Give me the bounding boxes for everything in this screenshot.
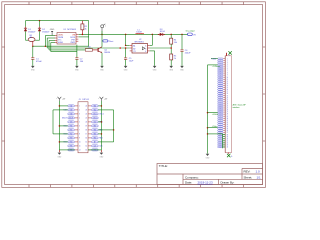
net flags J1 right	[92, 105, 99, 152]
svg-text:11: 11	[79, 146, 81, 148]
resistor R3	[85, 47, 92, 52]
svg-text:1.0: 1.0	[256, 170, 261, 174]
net flag DC+output	[186, 30, 197, 37]
node junction left rail top	[59, 105, 61, 107]
wire U2 vertical feed	[125, 34, 127, 45]
svg-text:20: 20	[86, 122, 88, 124]
node junction U2 feed	[125, 34, 127, 36]
pins J1 right	[88, 106, 91, 150]
svg-text:1: 1	[229, 55, 230, 57]
svg-text:GND: GND	[219, 128, 221, 130]
node junction P1 rail b	[207, 127, 209, 129]
pin numbers P1	[225, 56, 228, 153]
svg-text:1k: 1k	[85, 28, 87, 30]
svg-text:MCLR: MCLR	[69, 118, 73, 120]
svg-text:RB0: RB0	[70, 126, 73, 128]
svg-text:GND: GND	[219, 122, 221, 124]
node junction H4/V45	[45, 45, 47, 47]
wire F1 to node	[32, 42, 34, 47]
svg-text:GND: GND	[219, 68, 221, 70]
svg-text:RB5: RB5	[94, 134, 97, 136]
svg-text:GND: GND	[219, 134, 221, 136]
wire right rail J1	[100, 101, 102, 152]
label ATX text	[233, 103, 247, 108]
title block texts	[159, 164, 261, 184]
ground under Q1	[100, 66, 105, 72]
node junction H2 drop	[152, 34, 154, 36]
svg-text:NCP3063: NCP3063	[67, 29, 77, 31]
node junction left rail low	[59, 141, 61, 143]
node junction vcc flag	[101, 34, 103, 36]
wire U2 pin5 to R4 node	[150, 47, 171, 49]
ground under R5	[169, 66, 174, 72]
svg-text:5: 5	[145, 48, 146, 50]
wire J1 outer left rail	[53, 110, 68, 134]
inductor L1	[136, 29, 144, 34]
wire to U1 pin2 loop	[47, 38, 130, 48]
op-amp U2	[132, 39, 148, 53]
svg-text:14: 14	[86, 146, 88, 148]
wire P1 row4	[208, 65, 221, 68]
svg-text:interface: interface	[233, 106, 240, 109]
ground under C2	[75, 66, 80, 72]
wire J1 outer right rail	[98, 110, 113, 142]
wire P1 row27	[208, 113, 219, 116]
wire P1 row1	[211, 58, 218, 60]
net flags P1	[218, 58, 223, 148]
node main	[32, 45, 34, 47]
wire emitter	[101, 53, 103, 66]
node junction P1 rail c	[207, 133, 209, 135]
svg-text:GND: GND	[219, 79, 221, 81]
wire J1 row1 left	[59, 105, 67, 107]
svg-text:100uH: 100uH	[136, 32, 142, 34]
pins U2	[130, 45, 150, 51]
svg-text:RB6: RB6	[94, 130, 97, 132]
svg-text:GND: GND	[219, 140, 221, 142]
wire J1 left low link	[59, 141, 67, 143]
svg-text:S8050: S8050	[104, 52, 111, 54]
svg-text:10k: 10k	[174, 42, 177, 44]
capacitor C2	[75, 45, 84, 66]
ground under J1 right	[100, 153, 105, 159]
svg-text:RB4: RB4	[94, 138, 97, 140]
power flag X top P1	[227, 51, 232, 57]
svg-text:19: 19	[86, 126, 88, 128]
wire U2 pin4 to ground	[150, 51, 155, 66]
svg-text:Sheet:: Sheet:	[244, 175, 253, 179]
node junction C6 top	[181, 34, 183, 36]
svg-text:DIP-24: DIP-24	[83, 99, 90, 101]
svg-text:16: 16	[86, 138, 88, 140]
svg-text:22: 22	[86, 114, 88, 116]
title block	[157, 164, 263, 185]
node junction R1 bottom	[82, 34, 84, 36]
diode D2	[38, 28, 50, 33]
node junction outer right	[113, 129, 115, 131]
wire top rail	[26, 20, 89, 22]
node junction P1 rail a	[207, 112, 209, 114]
svg-text:6: 6	[145, 45, 146, 47]
svg-text:12: 12	[79, 150, 81, 152]
node junction C5	[119, 47, 121, 49]
diode D1	[24, 28, 36, 33]
pins U1 right	[76, 34, 78, 41]
svg-text:Company:: Company:	[185, 175, 199, 179]
op-amp U1	[57, 29, 77, 44]
svg-text:Date:: Date:	[185, 181, 192, 185]
resistor R5	[170, 54, 177, 66]
svg-text:REV:: REV:	[244, 170, 251, 174]
svg-text:5Vout: 5Vout	[109, 40, 114, 43]
svg-text:GND: GND	[219, 130, 221, 132]
svg-text:GND: GND	[50, 29, 55, 31]
wire D2 branch	[39, 21, 41, 41]
svg-text:R3: R3	[88, 47, 90, 49]
svg-text:OSC1: OSC1	[93, 114, 97, 116]
node junction U2 pin top	[125, 45, 127, 47]
svg-text:OSC2: OSC2	[93, 118, 97, 120]
ground flag below P1	[227, 153, 233, 158]
connector J1	[78, 99, 90, 153]
node junction inner right 122	[101, 121, 103, 123]
node junction R4 top	[170, 34, 172, 36]
svg-text:A1: A1	[133, 44, 135, 47]
svg-text:C3: C3	[133, 51, 135, 53]
svg-text:VSS: VSS	[70, 122, 73, 124]
svg-text:RB1: RB1	[70, 130, 73, 132]
svg-text:+ 1.8Vcore: + 1.8Vcore	[212, 65, 220, 68]
svg-text:RB4: RB4	[70, 142, 73, 144]
svg-text:4: 4	[145, 51, 146, 53]
svg-text:B2: B2	[133, 48, 135, 50]
wire J1 right link 130	[98, 129, 113, 131]
wire H3	[79, 21, 89, 47]
net name texts J1 right	[99, 114, 104, 148]
wire J1 row1 right	[98, 105, 101, 107]
svg-text:GND: GND	[219, 126, 221, 128]
svg-text:+: +	[98, 98, 99, 100]
ground under C5	[124, 66, 129, 72]
node junction divider	[170, 44, 172, 54]
svg-text:MCLR: MCLR	[62, 118, 68, 120]
svg-text:OSC1: OSC1	[99, 114, 104, 116]
svg-text:13: 13	[86, 150, 88, 152]
svg-text:10: 10	[79, 142, 81, 144]
transistor Q1	[98, 47, 111, 54]
net flag VOUT	[103, 40, 114, 43]
wire H2 main rail	[79, 33, 188, 35]
svg-text:+: +	[56, 98, 57, 100]
wire J1 mid right link	[98, 133, 101, 135]
svg-text:15: 15	[86, 142, 88, 144]
wire left rail J1	[58, 101, 60, 152]
wire main horizontal H4	[33, 45, 89, 47]
svg-text:INT: INT	[94, 142, 96, 144]
svg-text:MP2359DJ: MP2359DJ	[135, 41, 144, 43]
svg-text:GND: GND	[219, 118, 221, 120]
svg-text:GND: GND	[219, 77, 221, 79]
svg-text:TITLE:: TITLE:	[159, 164, 168, 168]
svg-text:2k: 2k	[174, 58, 176, 60]
svg-text:Tx232: Tx232	[211, 58, 216, 60]
svg-text:470uF: 470uF	[36, 61, 42, 63]
node junction U2 mid pin	[125, 47, 127, 49]
wire P1 ground bus	[208, 134, 226, 148]
ground under U2 pin4	[153, 66, 158, 72]
svg-text:+5Vsb: +5Vsb	[212, 126, 217, 128]
wire D1 branch	[25, 21, 27, 41]
svg-text:RB4: RB4	[99, 138, 102, 140]
svg-text:GND: GND	[219, 146, 221, 148]
svg-text:GND: GND	[219, 103, 221, 105]
wire P1 left rail	[207, 65, 209, 154]
svg-text:2019-11-23: 2019-11-23	[198, 181, 213, 185]
svg-text:220uF: 220uF	[185, 52, 191, 54]
power flag VCC	[101, 24, 106, 35]
svg-text:Drawn By:: Drawn By:	[221, 181, 235, 185]
sheet border frame	[2, 2, 266, 188]
svg-text:10uF: 10uF	[129, 61, 134, 63]
svg-text:23: 23	[86, 110, 88, 112]
net name texts J1 left	[62, 109, 68, 144]
svg-text:+3.3Vsb: +3.3Vsb	[212, 114, 218, 116]
wire to U1 pin3 loop	[49, 41, 85, 50]
wire link diodes to F1	[26, 39, 40, 41]
node junction inner left 126	[59, 125, 61, 127]
svg-text:GND: GND	[219, 144, 221, 146]
wire J1 bottom row right	[88, 149, 101, 151]
svg-text:CMP5: CMP5	[70, 42, 75, 44]
pins P1 left	[223, 59, 225, 147]
pins U1 left	[55, 36, 57, 43]
svg-text:GND: GND	[219, 99, 221, 101]
svg-text:RB5: RB5	[70, 146, 73, 148]
svg-text:1N4007: 1N4007	[28, 31, 36, 33]
diode D3	[158, 29, 166, 36]
svg-text:1N4007: 1N4007	[42, 31, 50, 33]
svg-text:GND: GND	[219, 142, 221, 144]
svg-text:1/1: 1/1	[257, 175, 262, 179]
wire to U1 pin1	[45, 36, 55, 47]
svg-text:GND: GND	[219, 136, 221, 138]
wire collector	[101, 34, 103, 46]
capacitor C1	[31, 46, 42, 66]
svg-text:RB7: RB7	[94, 126, 97, 128]
svg-text:RB3: RB3	[70, 138, 73, 140]
svg-text:RB2: RB2	[70, 134, 73, 136]
node junction right rail top	[101, 105, 103, 107]
svg-text:17: 17	[86, 134, 88, 136]
wire J1 bottom row left	[59, 149, 74, 151]
ground under J1 left	[58, 153, 63, 159]
wire J1 left link 126	[59, 125, 67, 127]
svg-text:DC+output: DC+output	[186, 30, 195, 33]
svg-text:18: 18	[86, 130, 88, 132]
wire U2 pin stubs left	[126, 44, 130, 46]
wire J1 right link 122	[98, 121, 101, 123]
svg-text:CLK: CLK	[94, 146, 97, 148]
capacitor C5	[124, 48, 134, 66]
power flag +5V right of J1	[98, 97, 108, 101]
capacitor C6	[180, 34, 191, 66]
pin numbers J1	[79, 106, 87, 152]
pins J1 left	[75, 106, 78, 150]
resistor R1	[81, 21, 87, 35]
fuse F1	[28, 35, 35, 42]
resistor R4	[170, 34, 177, 44]
wire to U1 pin4 loop	[51, 43, 77, 52]
svg-text:21: 21	[86, 118, 88, 120]
svg-text:SS14: SS14	[160, 31, 166, 33]
power flag GND near U1	[50, 29, 55, 35]
power flag +5V left of J1	[56, 97, 66, 101]
svg-text:GND: GND	[219, 95, 221, 97]
wire R3 to Q1 base	[93, 49, 99, 51]
svg-text:24: 24	[86, 106, 88, 108]
ground under C6	[180, 66, 185, 72]
svg-text:VDD: VDD	[93, 122, 96, 124]
svg-text:4GND: 4GND	[58, 42, 64, 44]
svg-text:5VSB: 5VSB	[219, 85, 222, 87]
net flag texts P1	[219, 58, 222, 148]
wire U2 pin6 to H2	[150, 34, 153, 45]
wire P1 row34	[208, 126, 218, 128]
ground under P1 rail	[206, 154, 211, 160]
connector P1	[225, 56, 231, 153]
svg-text:GND: GND	[219, 138, 221, 140]
node junction right rail mid	[101, 133, 103, 135]
net flags J1 left	[68, 105, 75, 152]
ground under C1	[31, 66, 36, 72]
svg-text:GND: GND	[219, 81, 221, 83]
node junction top rail / D2	[39, 20, 41, 22]
